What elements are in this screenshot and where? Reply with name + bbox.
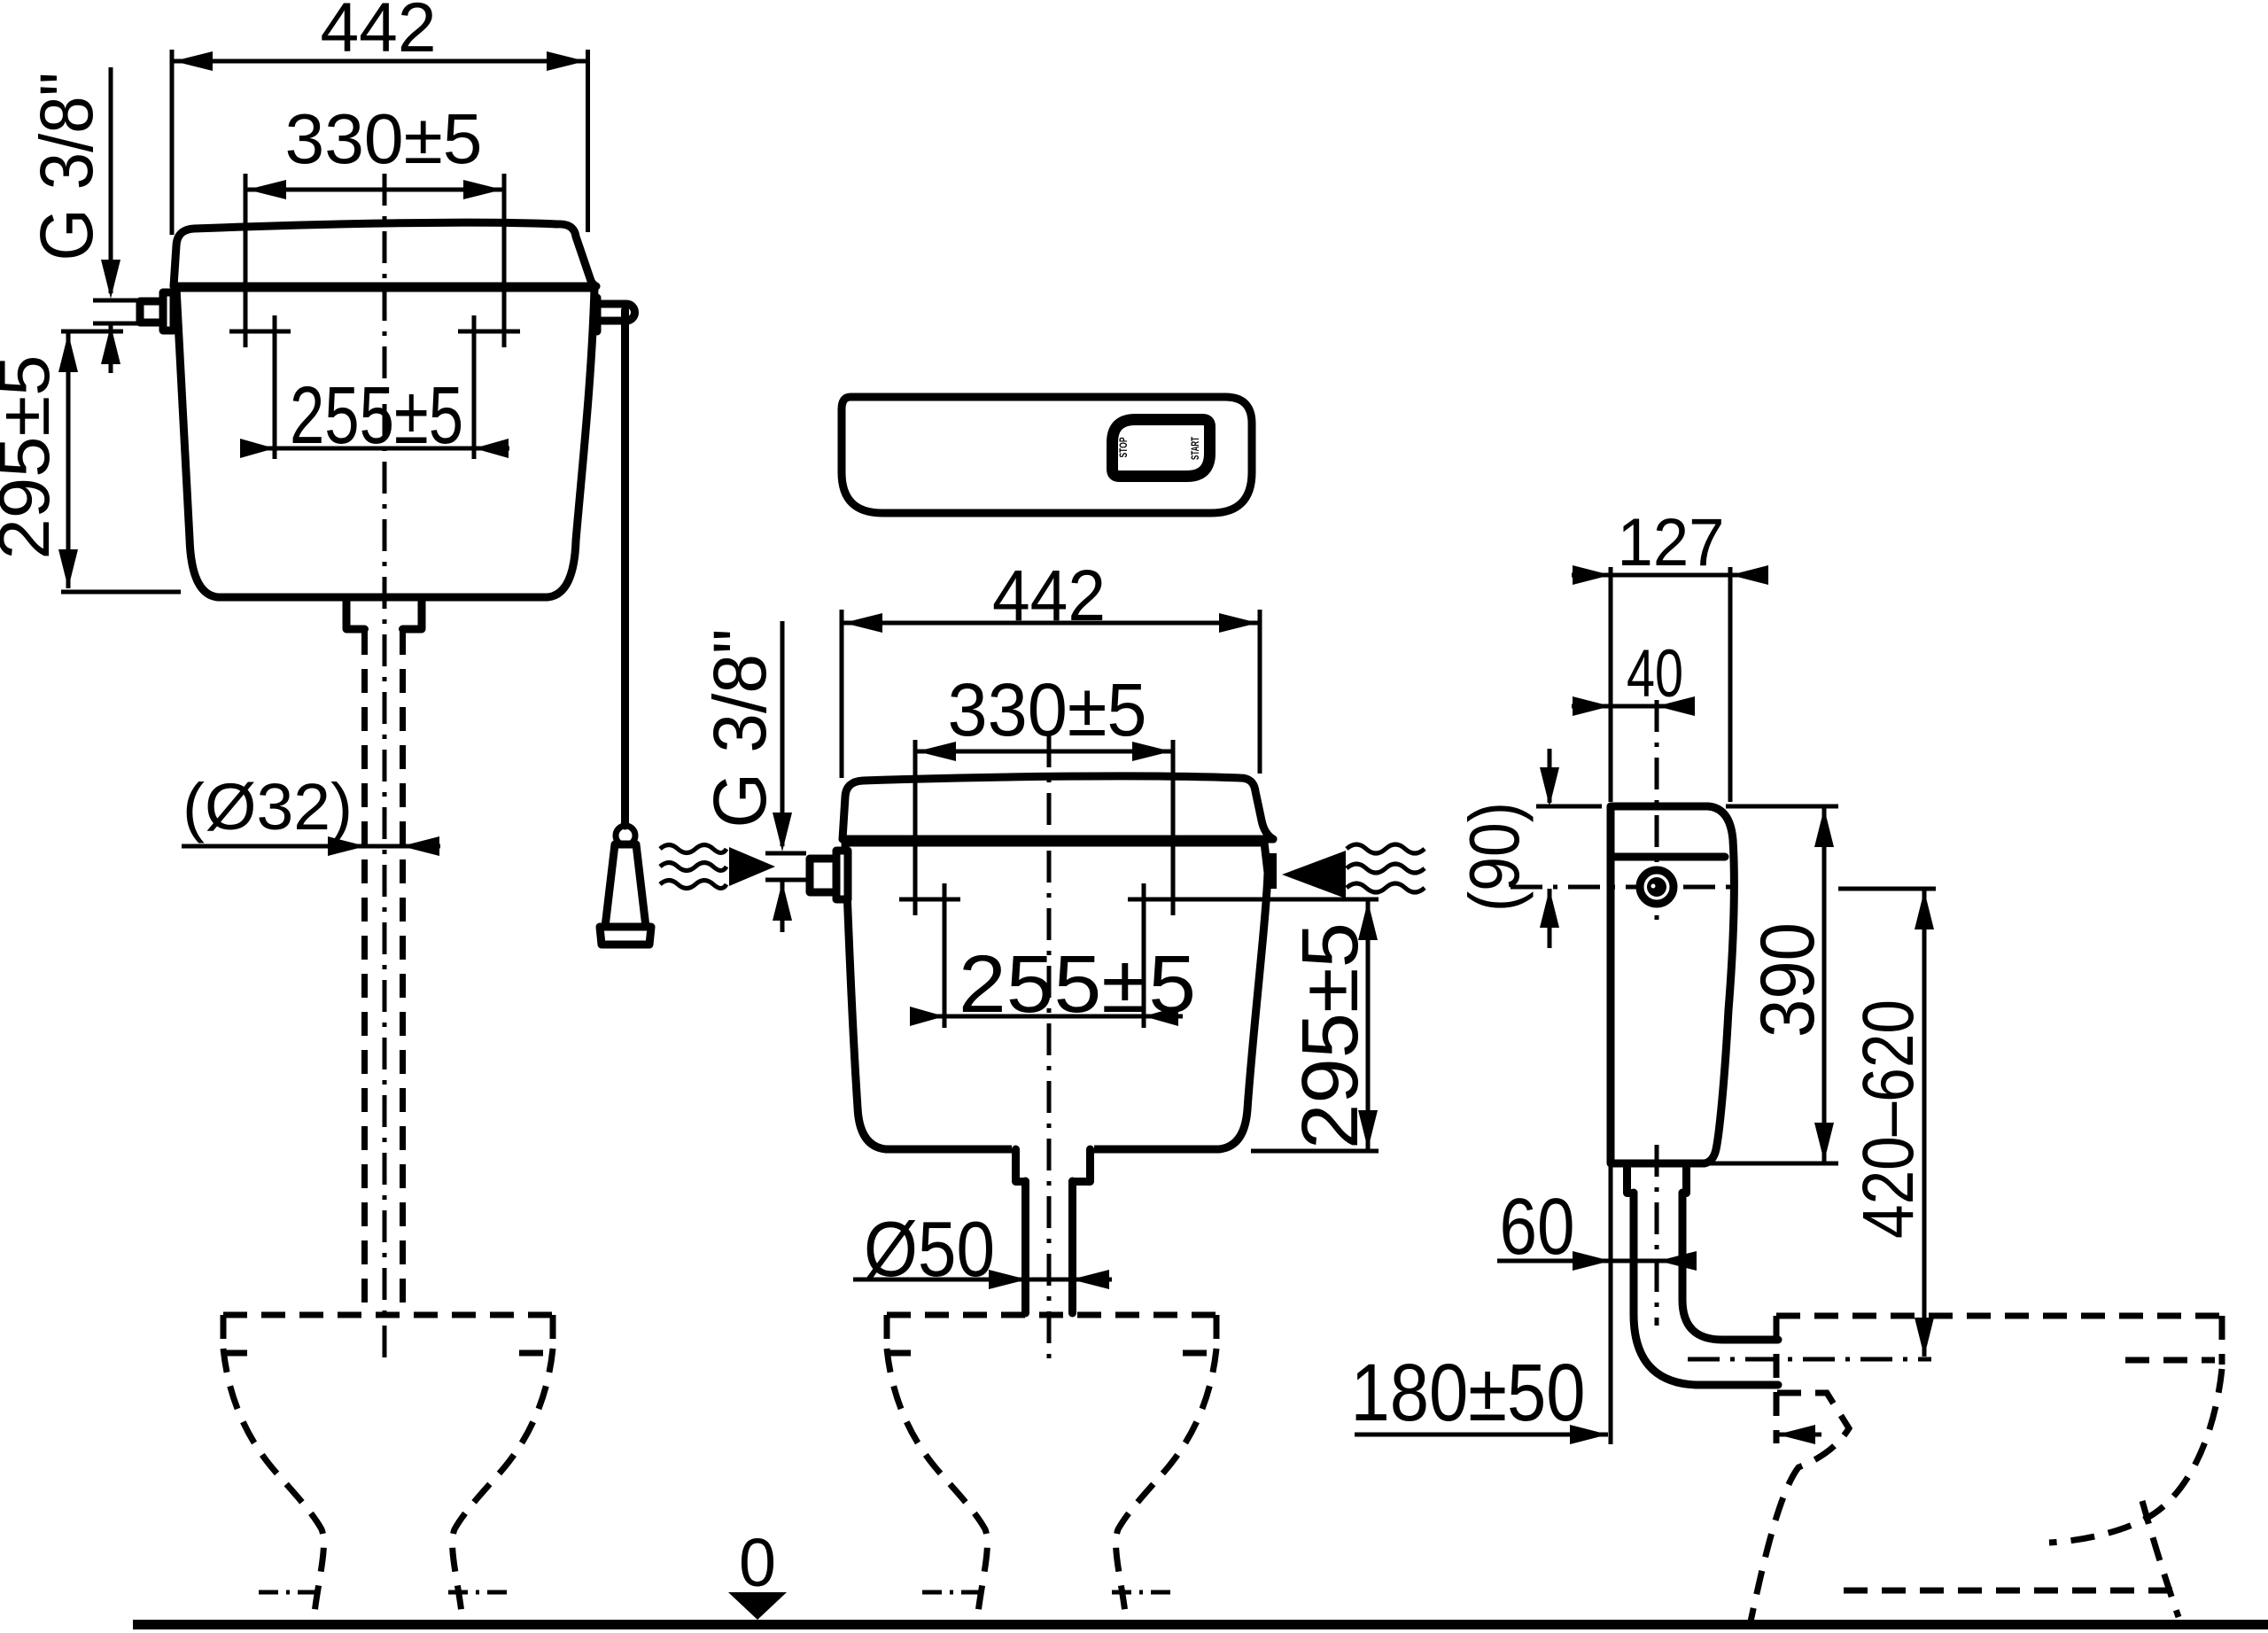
svg-text:60: 60	[1500, 1183, 1575, 1271]
svg-text:(90): (90)	[1455, 802, 1534, 912]
svg-text:40: 40	[1627, 636, 1683, 712]
svg-text:295±5: 295±5	[1286, 922, 1375, 1149]
svg-text:390: 390	[1745, 922, 1830, 1038]
svg-text:255±5: 255±5	[290, 370, 463, 461]
svg-text:STOP: STOP	[1117, 438, 1130, 458]
svg-text:442: 442	[321, 0, 437, 66]
svg-text:255±5: 255±5	[959, 939, 1196, 1030]
svg-text:420–620: 420–620	[1848, 999, 1929, 1239]
svg-text:180±50: 180±50	[1351, 1348, 1586, 1438]
svg-text:Ø50: Ø50	[864, 1205, 995, 1293]
svg-text:442: 442	[992, 556, 1106, 636]
svg-text:330±5: 330±5	[285, 99, 483, 178]
svg-text:(Ø32): (Ø32)	[183, 770, 353, 844]
svg-text:G 3/8": G 3/8"	[25, 73, 108, 261]
svg-text:127: 127	[1618, 505, 1725, 580]
svg-text:295±5: 295±5	[0, 355, 65, 560]
svg-text:G 3/8": G 3/8"	[698, 629, 781, 828]
svg-text:START: START	[1189, 437, 1201, 460]
svg-text:0: 0	[739, 1525, 776, 1601]
